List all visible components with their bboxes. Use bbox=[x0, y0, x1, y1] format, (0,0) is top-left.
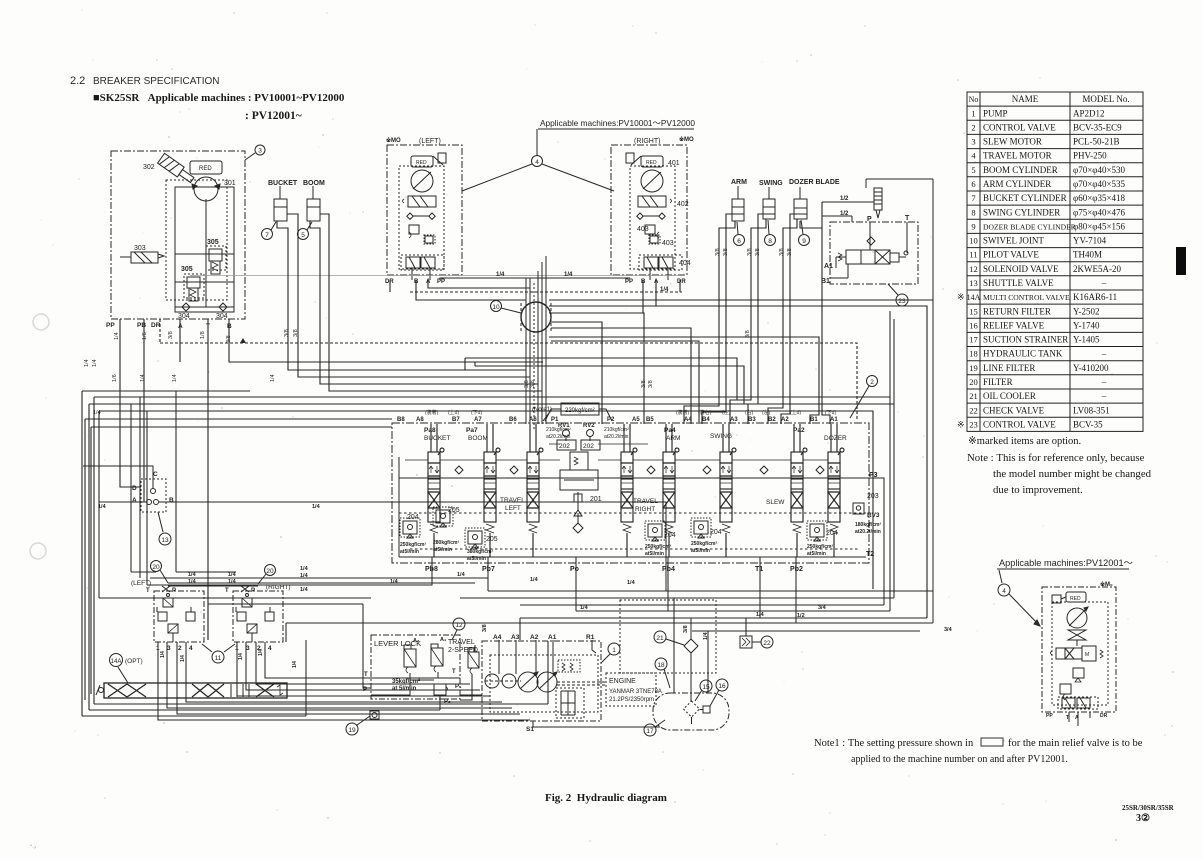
svg-text:MULTI CONTROL VALVE: MULTI CONTROL VALVE bbox=[983, 293, 1070, 302]
svg-text:304: 304 bbox=[178, 313, 190, 320]
svg-text:3/8: 3/8 bbox=[482, 624, 488, 632]
svg-text:MODEL No.: MODEL No. bbox=[1082, 94, 1129, 104]
label TRAVEL RIGHT bbox=[633, 498, 658, 513]
svg-text:6: 6 bbox=[971, 179, 975, 189]
svg-text:1/4: 1/4 bbox=[496, 272, 505, 278]
svg-text:T: T bbox=[364, 672, 368, 678]
svg-text:204: 204 bbox=[710, 529, 722, 536]
bus right y306 bbox=[549, 306, 927, 618]
svg-text:5: 5 bbox=[301, 232, 305, 239]
port relief 204 swing bbox=[691, 518, 711, 538]
svg-text:D: D bbox=[132, 485, 137, 492]
left travel pilot valve 11 box bbox=[154, 591, 204, 642]
svg-text:No: No bbox=[969, 95, 979, 104]
svg-text:380kgf/cm²: 380kgf/cm² bbox=[467, 549, 493, 555]
svg-text:RV3: RV3 bbox=[867, 512, 880, 519]
svg-text:DR: DR bbox=[677, 279, 686, 285]
svg-text:■SK25SR Applicable machines: ■SK25SR Applicable machines : PV10001~PV… bbox=[93, 92, 345, 104]
svg-text:7: 7 bbox=[971, 193, 975, 203]
svg-text:(上d): (上d) bbox=[448, 409, 459, 416]
svg-text:※MO: ※MO bbox=[386, 136, 401, 144]
svg-text:ARM CYLINDER: ARM CYLINDER bbox=[983, 179, 1051, 189]
left port labels bbox=[385, 279, 445, 285]
svg-text:PILOT VALVE: PILOT VALVE bbox=[983, 250, 1039, 260]
svg-text:: PV12001~: : PV12001~ bbox=[245, 110, 302, 122]
check valve 22 body bbox=[740, 636, 752, 648]
solenoid valve A1 right bbox=[431, 648, 443, 666]
svg-text:–: – bbox=[1101, 391, 1107, 401]
left pilot internals bbox=[163, 598, 173, 607]
svg-text:※: ※ bbox=[957, 419, 965, 429]
svg-text:※MO: ※MO bbox=[679, 135, 694, 143]
regulator springs bbox=[562, 663, 573, 671]
right travel motor dash-dot box bbox=[611, 145, 687, 275]
pedal assembly manifold bbox=[104, 683, 287, 698]
valve block port labels bbox=[397, 417, 838, 423]
wire check22 bbox=[745, 618, 747, 636]
wire PB bbox=[143, 319, 145, 502]
main pump 1 bbox=[518, 672, 538, 692]
svg-text:17: 17 bbox=[969, 335, 978, 345]
bus right y300 bbox=[549, 299, 933, 301]
bucket cylinder wires bbox=[277, 221, 526, 370]
svg-text:250kgf/cm²: 250kgf/cm² bbox=[807, 544, 833, 550]
svg-text:due to improvement.: due to improvement. bbox=[993, 484, 1083, 496]
svg-text:2: 2 bbox=[971, 122, 975, 132]
swing cylinder bbox=[763, 199, 775, 219]
punch hole upper bbox=[33, 314, 49, 330]
svg-text:K16AR6-11: K16AR6-11 bbox=[1073, 292, 1117, 302]
opt port labels bbox=[1046, 713, 1108, 721]
svg-text:3/8: 3/8 bbox=[715, 248, 721, 256]
solenoid valve A2 left bbox=[404, 649, 416, 667]
svg-text:3/8: 3/8 bbox=[787, 248, 793, 256]
pilot box drop wires left bbox=[158, 642, 530, 720]
gallery check diamonds bbox=[455, 466, 463, 474]
lever lock pressure text bbox=[392, 678, 420, 692]
travel left box drop wires bbox=[390, 278, 630, 300]
svg-text:at5l/min: at5l/min bbox=[400, 549, 419, 555]
relief 16 box bbox=[703, 706, 710, 713]
ENGINE text bbox=[609, 678, 662, 703]
svg-text:(OPT): (OPT) bbox=[125, 658, 143, 665]
svg-text:10: 10 bbox=[969, 236, 978, 246]
left motor orifice bbox=[409, 225, 419, 234]
bus right y337 bbox=[549, 337, 819, 424]
svg-text:※: ※ bbox=[957, 292, 965, 302]
svg-text:TRAVEL: TRAVEL bbox=[448, 639, 475, 646]
svg-text:HYDRAULIC TANK: HYDRAULIC TANK bbox=[983, 349, 1063, 359]
svg-text:B2: B2 bbox=[768, 417, 776, 423]
svg-text:φ70×φ40×535: φ70×φ40×535 bbox=[1073, 179, 1126, 189]
svg-text:applied to the machine number: applied to the machine number on and aft… bbox=[851, 754, 1068, 765]
svg-text:PB: PB bbox=[137, 322, 146, 329]
svg-text:A1: A1 bbox=[824, 263, 833, 270]
circle ref 4 bbox=[536, 129, 538, 156]
gallery feed segments bbox=[405, 459, 828, 461]
svg-text:B3: B3 bbox=[748, 417, 756, 423]
valve block left rail bbox=[398, 457, 400, 557]
valve block gallery top line bbox=[399, 477, 866, 479]
right travel pilot valve box bbox=[233, 591, 283, 642]
svg-text:1/4: 1/4 bbox=[756, 612, 765, 618]
circle ref 10 bbox=[491, 301, 502, 312]
svg-text:19: 19 bbox=[969, 363, 978, 373]
long loop y419 bbox=[85, 419, 392, 700]
svg-text:22: 22 bbox=[763, 640, 771, 647]
pipe size labels bbox=[114, 331, 232, 343]
left travel motor pump bbox=[411, 170, 433, 192]
dozer blade cylinder bbox=[794, 199, 807, 219]
multi control valve 14A dash-dot outline bbox=[392, 423, 869, 563]
svg-text:Pa8: Pa8 bbox=[424, 427, 436, 434]
wire right edge top bbox=[866, 179, 933, 623]
svg-text:(装着): (装着) bbox=[425, 409, 439, 416]
svg-text:RV2: RV2 bbox=[583, 423, 595, 429]
bus right y358 bbox=[465, 358, 737, 400]
boom cylinder bbox=[307, 199, 320, 221]
svg-text:PP: PP bbox=[437, 279, 445, 285]
svg-text:16: 16 bbox=[969, 320, 978, 330]
circle ref 18 bbox=[655, 658, 667, 670]
wire through check bbox=[690, 618, 692, 701]
pump unit inner dashed box bbox=[490, 655, 598, 712]
opt mid relief bbox=[1073, 668, 1084, 678]
svg-text:BOOM: BOOM bbox=[303, 180, 325, 187]
lever lock relief small bbox=[434, 684, 446, 695]
drain line across bbox=[190, 275, 683, 277]
svg-text:21: 21 bbox=[969, 391, 978, 401]
svg-text:T: T bbox=[1066, 715, 1069, 721]
svg-text:3/4: 3/4 bbox=[818, 605, 827, 611]
svg-text:1/4: 1/4 bbox=[530, 577, 539, 583]
svg-text:(装右): (装右) bbox=[698, 409, 712, 416]
svg-text:3/8: 3/8 bbox=[168, 331, 174, 339]
bus right y328 bbox=[551, 328, 691, 424]
lever lock feeds bbox=[99, 502, 371, 688]
return bus y605 bbox=[520, 604, 884, 606]
svg-text:φ60×φ35×418: φ60×φ35×418 bbox=[1073, 193, 1126, 203]
svg-text:T: T bbox=[225, 588, 229, 594]
relief drain diamond bbox=[573, 523, 583, 533]
dashed drain bus bbox=[160, 343, 857, 421]
svg-text:SOLENOID VALVE: SOLENOID VALVE bbox=[983, 264, 1059, 274]
svg-text:PP: PP bbox=[625, 279, 633, 285]
svg-text:T2: T2 bbox=[866, 551, 874, 558]
port relief 204 arm bbox=[645, 521, 665, 541]
right riser x894 bbox=[893, 319, 895, 598]
svg-text:–: – bbox=[1101, 377, 1107, 387]
svg-text:OIL COOLER: OIL COOLER bbox=[983, 391, 1036, 401]
svg-text:220kgf/cm²: 220kgf/cm² bbox=[565, 408, 595, 414]
lever lock valve dash-dot box bbox=[371, 635, 460, 699]
svg-text:3: 3 bbox=[258, 148, 262, 155]
svg-text:1/4: 1/4 bbox=[270, 374, 276, 382]
port relief 205 boom-b bbox=[465, 528, 485, 548]
opt hand valve bbox=[1068, 630, 1086, 640]
right motor inner dashed box bbox=[630, 166, 675, 269]
svg-text:SLEW: SLEW bbox=[766, 499, 785, 506]
dozer cylinder wires bbox=[768, 219, 797, 424]
svg-text:–: – bbox=[1101, 278, 1107, 288]
svg-text:10: 10 bbox=[492, 304, 500, 311]
punch hole lower bbox=[30, 543, 46, 559]
svg-text:1/2: 1/2 bbox=[840, 196, 849, 202]
svg-text:A1: A1 bbox=[548, 634, 557, 641]
RED box bbox=[190, 161, 222, 174]
svg-text:LINE FILTER: LINE FILTER bbox=[983, 363, 1035, 373]
svg-text:403: 403 bbox=[662, 240, 674, 247]
svg-text:P: P bbox=[251, 588, 255, 594]
tank internal wire bbox=[691, 717, 693, 724]
svg-text:YV-7104: YV-7104 bbox=[1073, 236, 1107, 246]
svg-text:23: 23 bbox=[969, 419, 978, 429]
opt pump circle bbox=[1067, 608, 1087, 628]
svg-text:Y-1405: Y-1405 bbox=[1073, 335, 1100, 345]
circle ref 17 bbox=[644, 724, 656, 736]
svg-text:1/4: 1/4 bbox=[188, 572, 197, 578]
dashed pilot bus bbox=[410, 291, 682, 293]
svg-text:PCL-50-21B: PCL-50-21B bbox=[1073, 137, 1120, 147]
svg-text:20: 20 bbox=[266, 568, 274, 575]
svg-text:1/4: 1/4 bbox=[188, 579, 197, 585]
bus right y322 bbox=[551, 322, 602, 424]
port labels C D A B bbox=[132, 471, 174, 504]
svg-text:B8: B8 bbox=[397, 417, 405, 423]
svg-text:NAME: NAME bbox=[1012, 94, 1039, 104]
svg-text:3/8: 3/8 bbox=[745, 330, 751, 338]
svg-text:A: A bbox=[1075, 715, 1079, 721]
circle ref 20 left bbox=[151, 561, 162, 572]
svg-text:DOZER: DOZER bbox=[824, 435, 847, 442]
svg-text:1/6: 1/6 bbox=[142, 332, 148, 340]
svg-text:A1: A1 bbox=[830, 417, 838, 423]
svg-text:DR: DR bbox=[1100, 713, 1108, 719]
wire to strainer bbox=[822, 202, 874, 222]
svg-text:YANMAR 3TNE78A: YANMAR 3TNE78A bbox=[609, 689, 662, 695]
pilot feed bus upper bbox=[150, 578, 488, 583]
svg-text:18: 18 bbox=[657, 662, 665, 669]
svg-text:17: 17 bbox=[646, 728, 654, 735]
ENGINE dashed box bbox=[606, 673, 656, 706]
svg-text:1/4: 1/4 bbox=[660, 287, 669, 293]
svg-text:P: P bbox=[172, 588, 176, 594]
svg-text:(左): (左) bbox=[762, 409, 771, 416]
black index tab bbox=[1176, 247, 1186, 275]
svg-text:280kgf/cm²: 280kgf/cm² bbox=[433, 540, 459, 546]
svg-text:P: P bbox=[867, 216, 872, 223]
right travel motor pump bbox=[641, 170, 663, 192]
svg-text:404: 404 bbox=[679, 260, 691, 267]
circle ref 12 bbox=[453, 618, 465, 630]
svg-text:B1: B1 bbox=[810, 417, 818, 423]
svg-text:403: 403 bbox=[637, 226, 649, 233]
port numbers left box bbox=[156, 645, 193, 652]
svg-text:202: 202 bbox=[559, 443, 570, 450]
svg-text:PHV-250: PHV-250 bbox=[1073, 151, 1107, 161]
svg-text:CHECK VALVE: CHECK VALVE bbox=[983, 405, 1045, 415]
return bus y623 bbox=[286, 623, 933, 642]
relief valve 305 lower bbox=[187, 277, 200, 288]
svg-text:4: 4 bbox=[1002, 588, 1006, 595]
svg-text:3/8: 3/8 bbox=[683, 625, 689, 633]
circle ref 23 bbox=[888, 284, 898, 295]
svg-text:2KWE5A-20: 2KWE5A-20 bbox=[1073, 264, 1121, 274]
svg-text:1/4: 1/4 bbox=[228, 579, 237, 585]
svg-text:3: 3 bbox=[246, 645, 250, 652]
svg-text:for the main relief valve is t: for the main relief valve is to be bbox=[1008, 738, 1143, 749]
right motor valve bbox=[638, 196, 666, 207]
left pilot ports T P bbox=[146, 588, 176, 594]
svg-text:T: T bbox=[905, 215, 910, 222]
bus right y341 bbox=[551, 341, 699, 424]
svg-text:204: 204 bbox=[826, 530, 838, 537]
svg-text:φ80×φ45×156: φ80×φ45×156 bbox=[1073, 221, 1126, 231]
slew section spool bbox=[791, 424, 807, 557]
hydraulic tank outline bbox=[653, 693, 729, 730]
svg-text:204: 204 bbox=[407, 514, 419, 521]
svg-text:9: 9 bbox=[802, 238, 806, 245]
swivel joint 10 bbox=[521, 302, 551, 332]
svg-text:14A: 14A bbox=[967, 293, 981, 302]
svg-text:1/4: 1/4 bbox=[228, 572, 237, 578]
bucket section spool bbox=[428, 424, 444, 557]
circle ref 11 bbox=[202, 644, 235, 652]
parts table frame bbox=[967, 92, 1143, 431]
svg-text:303: 303 bbox=[134, 245, 146, 252]
swivel pass-through wires bbox=[525, 278, 527, 424]
svg-text:Applicable machines:PV10001～PV: Applicable machines:PV10001～PV12000 bbox=[540, 118, 695, 128]
pump unit inner solid box bbox=[175, 187, 234, 312]
svg-text:SUCTION STRAINER: SUCTION STRAINER bbox=[983, 335, 1068, 345]
wire PP from pump box bbox=[120, 319, 141, 487]
bus right y362b bbox=[475, 362, 744, 404]
circle ref 3 bbox=[255, 145, 265, 155]
svg-text:302: 302 bbox=[143, 164, 155, 171]
circle ref 22 bbox=[752, 641, 761, 643]
svg-text:21.2PS/2350rpm: 21.2PS/2350rpm bbox=[609, 697, 654, 703]
svg-text:1/4: 1/4 bbox=[238, 653, 244, 660]
svg-text:Y-2502: Y-2502 bbox=[1073, 306, 1100, 316]
svg-text:“·›: “·› bbox=[30, 845, 36, 851]
svg-text:(LEFT): (LEFT) bbox=[131, 580, 151, 587]
pump unit inner dotted box bbox=[166, 180, 227, 300]
return bus y598b bbox=[460, 597, 894, 599]
svg-text:at5l/min: at5l/min bbox=[645, 551, 664, 557]
svg-text:11: 11 bbox=[215, 655, 222, 662]
svg-text:1/4: 1/4 bbox=[140, 374, 146, 382]
svg-text:A4: A4 bbox=[684, 417, 692, 423]
svg-text:3/8: 3/8 bbox=[293, 329, 299, 337]
svg-text:18: 18 bbox=[969, 349, 978, 359]
svg-text:at5l/min: at5l/min bbox=[467, 556, 486, 562]
circle ref 1 bbox=[608, 643, 620, 655]
left edge big loops bottom bbox=[82, 640, 548, 716]
wire B port bbox=[229, 319, 543, 362]
lever lock port labels bbox=[363, 669, 462, 705]
svg-text:2.2: 2.2 bbox=[70, 75, 85, 87]
misc bottom links bbox=[371, 695, 482, 710]
svg-text:6: 6 bbox=[737, 238, 741, 245]
svg-text:DOZER BLADE CYLINDER: DOZER BLADE CYLINDER bbox=[983, 222, 1077, 231]
svg-text:4: 4 bbox=[189, 645, 193, 652]
circle ref 5 bbox=[298, 229, 309, 240]
right riser x890 bbox=[889, 311, 891, 611]
svg-text:1/4: 1/4 bbox=[300, 573, 309, 579]
circle ref 19 bbox=[346, 723, 358, 735]
svg-text:(左): (左) bbox=[722, 409, 731, 416]
svg-text:CONTROL VALVE: CONTROL VALVE bbox=[983, 419, 1056, 429]
pressure text left of P1 bbox=[546, 427, 571, 440]
svg-text:φ75×φ40×476: φ75×φ40×476 bbox=[1073, 207, 1126, 217]
svg-text:A4: A4 bbox=[493, 634, 502, 641]
valve block gallery low dashed bbox=[410, 548, 860, 550]
svg-text:1/4: 1/4 bbox=[84, 359, 90, 367]
svg-text:15: 15 bbox=[702, 684, 710, 691]
svg-text:ARM: ARM bbox=[731, 179, 747, 186]
svg-text:BCV-35: BCV-35 bbox=[1073, 419, 1103, 429]
svg-text:205: 205 bbox=[448, 507, 460, 514]
svg-text:Applicable machines:PV12001～: Applicable machines:PV12001～ bbox=[999, 558, 1133, 568]
label TRAVEL LEFT bbox=[500, 497, 525, 512]
long loop y397 bbox=[94, 397, 890, 704]
svg-text:TRAVEL MOTOR: TRAVEL MOTOR bbox=[983, 151, 1052, 161]
svg-text:1: 1 bbox=[971, 108, 975, 118]
svg-text:1/4: 1/4 bbox=[627, 580, 636, 586]
svg-text:13: 13 bbox=[969, 278, 978, 288]
svg-text:1/4: 1/4 bbox=[258, 649, 264, 656]
svg-text:SWING: SWING bbox=[759, 180, 783, 187]
svg-text:RED: RED bbox=[646, 160, 657, 166]
svg-text:P₁: P₁ bbox=[455, 684, 462, 690]
svg-text:3: 3 bbox=[167, 645, 171, 652]
left travel motor dash-dot box bbox=[387, 145, 462, 275]
suction strainer diamond bbox=[684, 701, 700, 717]
svg-text:at20.2l/min: at20.2l/min bbox=[546, 434, 571, 440]
travel-left section spool bbox=[527, 424, 543, 557]
svg-text:Pa7: Pa7 bbox=[466, 427, 478, 434]
svg-text:205: 205 bbox=[486, 536, 498, 543]
svg-text:402: 402 bbox=[677, 201, 689, 208]
svg-text:A5: A5 bbox=[632, 417, 640, 423]
pump port labels bbox=[493, 634, 595, 641]
svg-text:13: 13 bbox=[161, 537, 169, 544]
svg-text:B: B bbox=[169, 497, 174, 504]
boom section spool bbox=[484, 424, 500, 557]
svg-text:SWIVEL JOINT: SWIVEL JOINT bbox=[983, 236, 1044, 246]
svg-text:(装着): (装着) bbox=[676, 409, 690, 416]
svg-text:210kgf/cm²: 210kgf/cm² bbox=[546, 427, 571, 433]
table row lines bbox=[967, 105, 1143, 107]
bucket cylinder bbox=[274, 199, 287, 221]
svg-text:ENGINE: ENGINE bbox=[609, 678, 636, 685]
arrow leader to pump box bbox=[1009, 594, 1040, 626]
svg-text:(上d): (上d) bbox=[790, 409, 801, 416]
svg-text:C: C bbox=[153, 471, 158, 478]
svg-text:DR: DR bbox=[151, 322, 161, 329]
valve block gallery mid dashed bbox=[399, 512, 866, 514]
svg-text:B7: B7 bbox=[452, 417, 460, 423]
svg-text:20: 20 bbox=[969, 377, 978, 387]
svg-text:Note : This is for reference o: Note : This is for reference only, becau… bbox=[967, 452, 1145, 464]
left motor valve2 bbox=[424, 235, 435, 244]
svg-text:RELIEF VALVE: RELIEF VALVE bbox=[983, 320, 1045, 330]
dozer to valve23 wire bbox=[800, 202, 830, 424]
svg-text:22: 22 bbox=[969, 405, 978, 415]
svg-text:1/4: 1/4 bbox=[180, 655, 186, 662]
pipe labels 1/4 under pilots bbox=[160, 649, 298, 668]
pressure text right of P2 bbox=[604, 427, 629, 440]
